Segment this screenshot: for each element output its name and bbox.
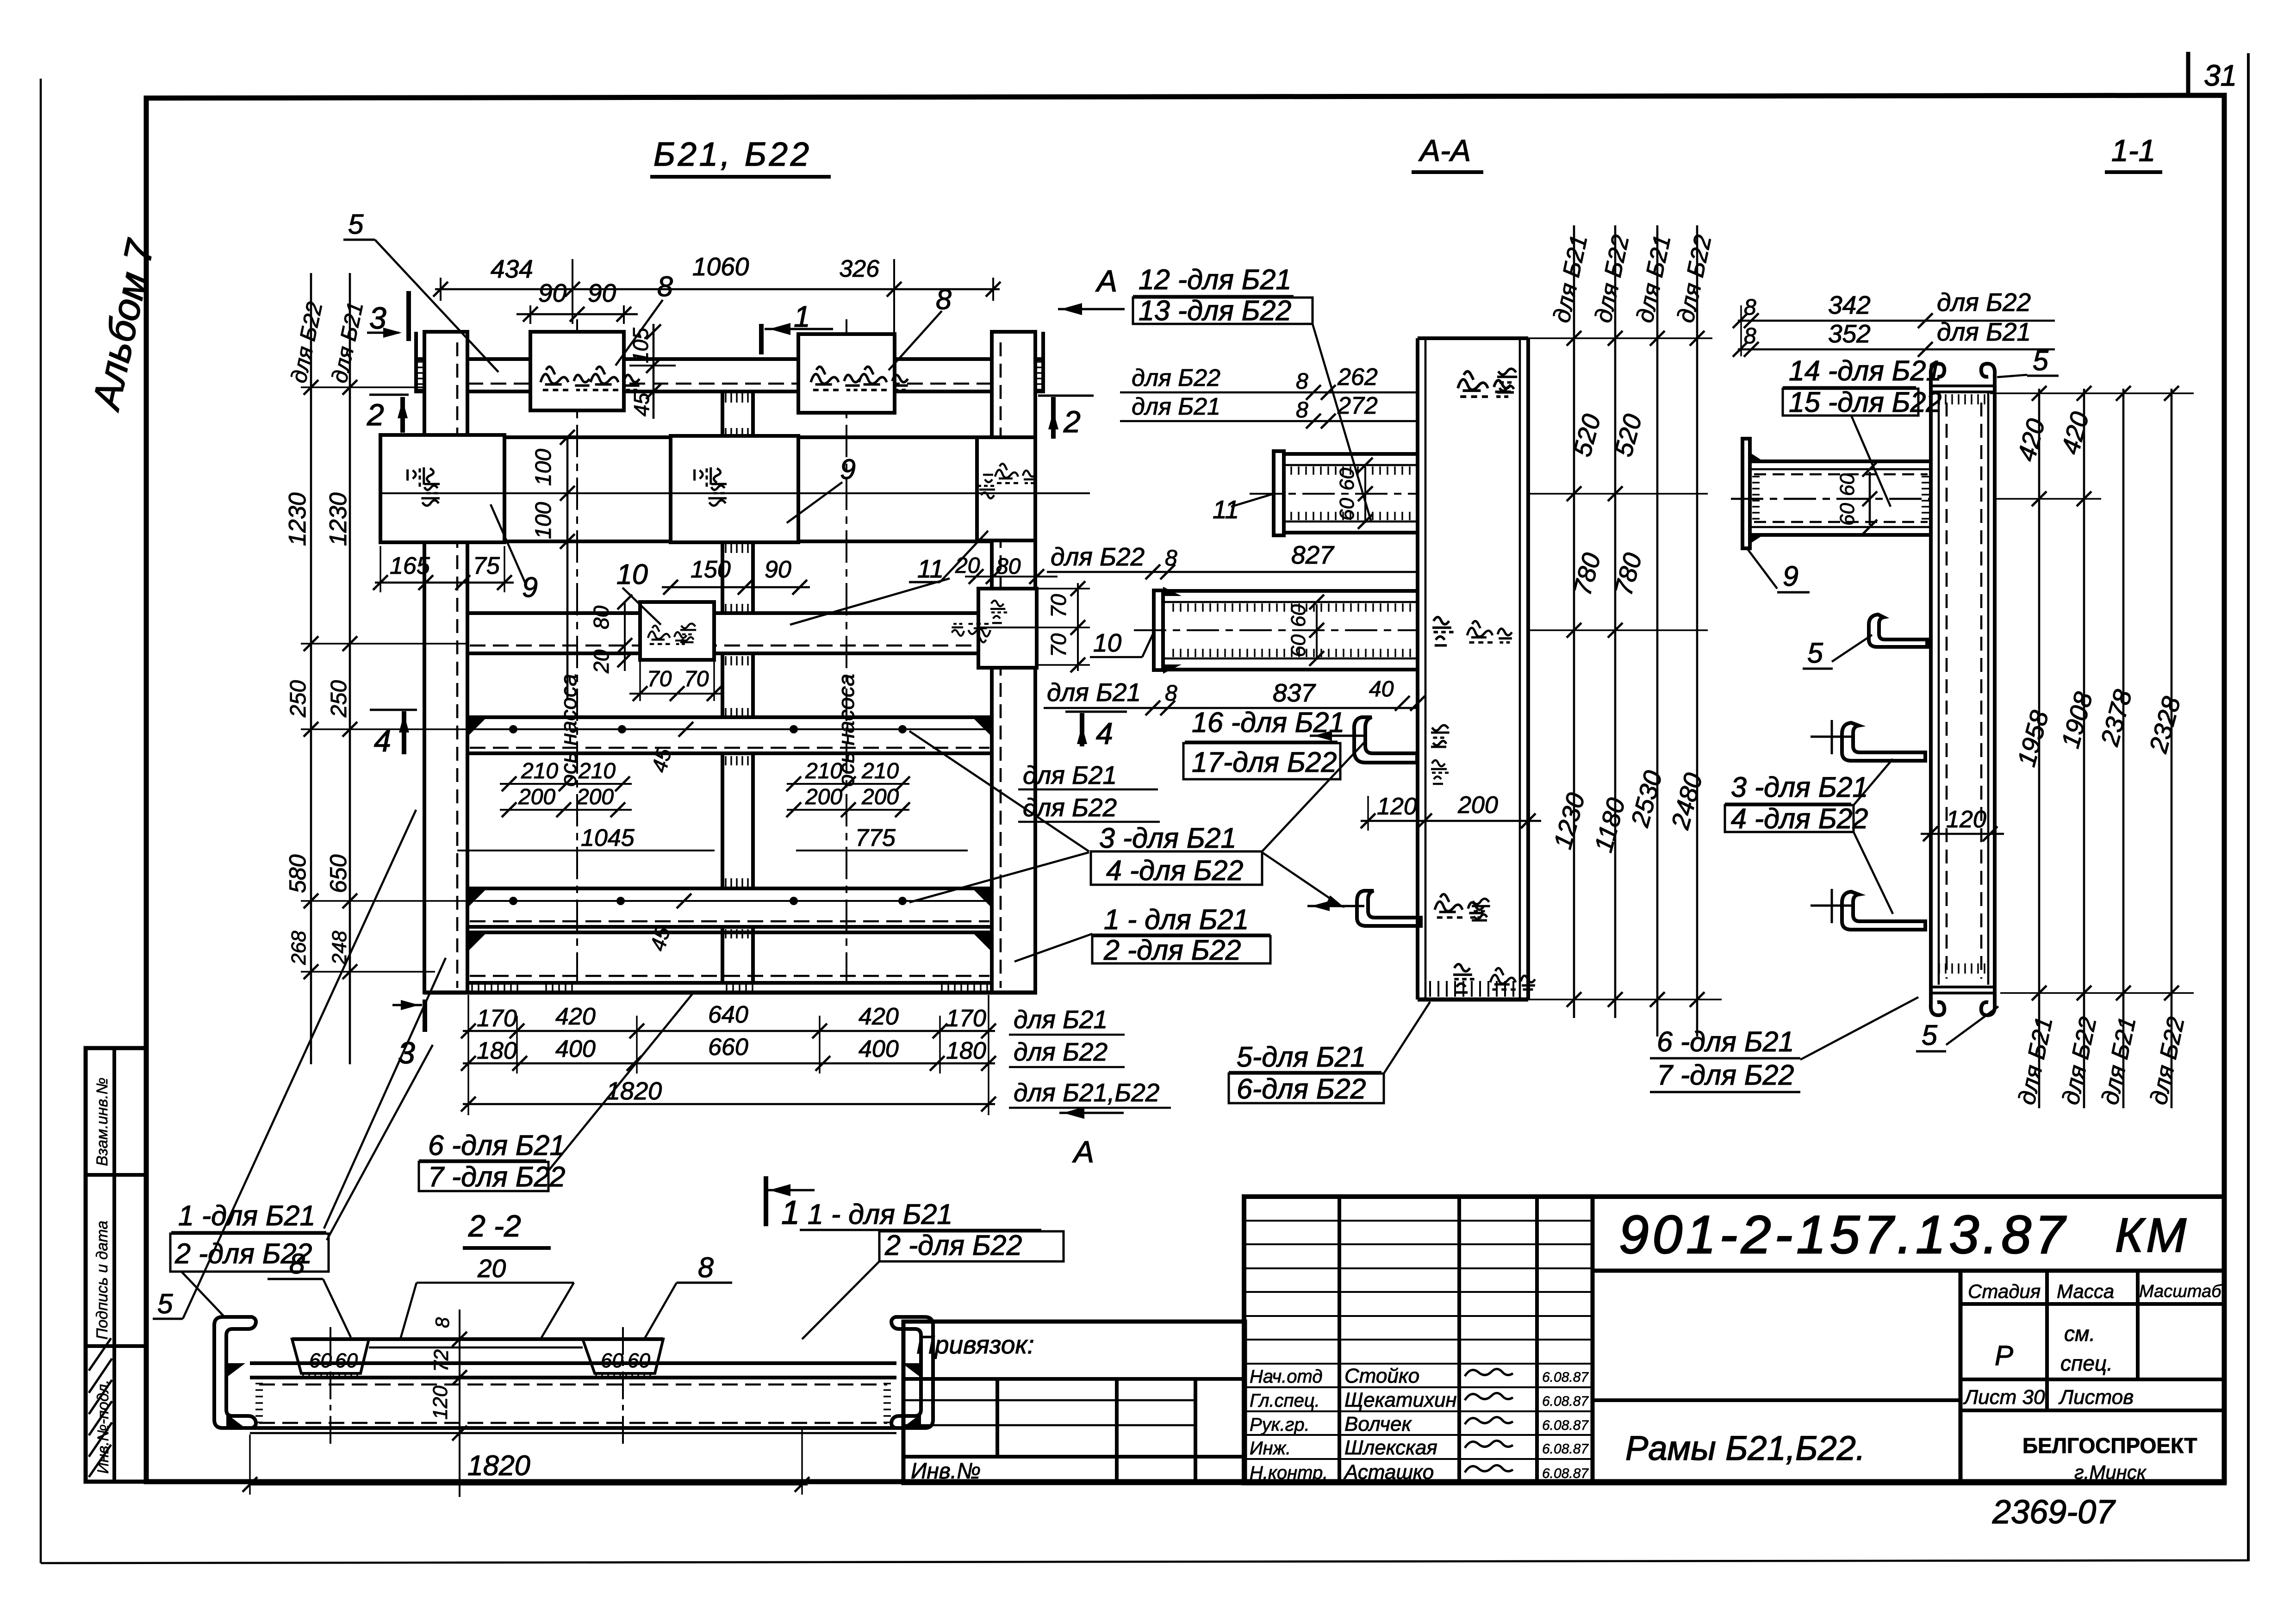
beam 2 centerline [387, 492, 1090, 494]
svg-text:6.08.87: 6.08.87 [1542, 1418, 1589, 1433]
bottom chord [467, 931, 992, 934]
svg-text:80: 80 [589, 605, 613, 629]
svg-text:5: 5 [1922, 1019, 1938, 1051]
dim 105/45 vertical [653, 324, 655, 419]
svg-text:60: 60 [628, 1349, 650, 1372]
dim row 90/90 [516, 313, 638, 316]
svg-text:70: 70 [1046, 633, 1070, 657]
plate 11 right [977, 437, 1035, 540]
svg-text:200: 200 [576, 785, 614, 809]
section mark 4 right [1065, 711, 1127, 713]
svg-text:Масштаб: Масштаб [2139, 1282, 2222, 1301]
svg-text:2369-07: 2369-07 [1992, 1494, 2116, 1531]
svg-text:3 -для Б21: 3 -для Б21 [1099, 822, 1236, 854]
central vertical member [721, 391, 724, 437]
svg-text:1 - для Б21: 1 - для Б21 [808, 1198, 952, 1230]
dim 70/70 right [1077, 583, 1079, 671]
svg-text:1230: 1230 [325, 492, 352, 546]
svg-text:8: 8 [431, 1317, 453, 1328]
beam 2 band [467, 435, 992, 439]
svg-text:Стойко: Стойко [1344, 1365, 1419, 1387]
svg-text:250: 250 [327, 680, 351, 718]
svg-text:6.08.87: 6.08.87 [1542, 1441, 1589, 1457]
svg-text:262: 262 [1337, 364, 1378, 391]
svg-text:Стадия: Стадия [1968, 1280, 2041, 1302]
svg-text:70: 70 [684, 667, 709, 691]
svg-text:Щекатихин: Щекатихин [1344, 1389, 1457, 1411]
svg-text:2: 2 [1063, 404, 1081, 439]
svg-text:60: 60 [1336, 498, 1358, 521]
svg-text:2 -2: 2 -2 [468, 1209, 521, 1243]
svg-text:8: 8 [657, 271, 673, 302]
svg-text:60: 60 [1836, 503, 1859, 526]
svg-text:Инж.: Инж. [1250, 1438, 1291, 1459]
svg-text:16 -для Б21: 16 -для Б21 [1192, 707, 1344, 738]
svg-text:342: 342 [1828, 291, 1871, 319]
svg-text:4: 4 [1096, 716, 1113, 751]
svg-text:210: 210 [521, 759, 558, 783]
svg-text:60: 60 [1336, 468, 1358, 490]
svg-text:для Б22: для Б22 [1132, 365, 1220, 391]
svg-text:650: 650 [325, 854, 351, 893]
stamp column frame [86, 1048, 146, 1482]
outer sheet edge bottom [41, 1560, 2248, 1563]
dim 80/20 left of plate10 [624, 602, 626, 671]
svg-text:180: 180 [946, 1037, 986, 1064]
plate 8 left [530, 332, 624, 410]
extension lines left [301, 386, 424, 388]
extension verticals bottom dims [467, 995, 469, 1115]
dim 70/70 under plate10 [629, 693, 722, 695]
AA column web left [1416, 338, 1419, 999]
pump axis centerline right [846, 319, 847, 985]
beam 1 top chord [416, 357, 424, 361]
svg-text:210: 210 [805, 759, 842, 783]
svg-text:3 -для Б21: 3 -для Б21 [1731, 771, 1868, 803]
svg-text:6 -для Б21: 6 -для Б21 [428, 1130, 565, 1161]
svg-text:А: А [1072, 1135, 1094, 1169]
svg-text:2 -для Б22: 2 -для Б22 [884, 1229, 1022, 1261]
svg-text:Асташко: Асташко [1343, 1461, 1434, 1484]
svg-text:8: 8 [1165, 681, 1177, 706]
svg-text:10: 10 [1093, 628, 1122, 657]
beam 4 [467, 715, 992, 719]
svg-text:3: 3 [398, 1036, 415, 1070]
plate 10 center [640, 602, 714, 660]
pump axis centerline left [576, 319, 578, 985]
svg-text:1 - для Б21: 1 - для Б21 [1104, 904, 1249, 935]
svg-text:для Б21: для Б21 [1132, 393, 1220, 420]
AA angle bracket [1354, 717, 1417, 763]
svg-text:6-для Б22: 6-для Б22 [1237, 1073, 1366, 1105]
stud line beam4 [477, 728, 988, 730]
leader to beam 5 [790, 578, 950, 625]
svg-text:КМ: КМ [2115, 1209, 2189, 1262]
AA weld marks top [1458, 372, 1511, 397]
svg-text:6.08.87: 6.08.87 [1542, 1394, 1589, 1409]
svg-text:7 -для Б22: 7 -для Б22 [428, 1161, 565, 1192]
section mark 1 bottom [764, 1176, 768, 1226]
svg-text:120: 120 [1377, 793, 1417, 820]
signature table rows [1244, 1220, 1593, 1222]
svg-text:4: 4 [374, 724, 391, 758]
svg-text:60: 60 [1287, 634, 1310, 657]
svg-text:Волчек: Волчек [1344, 1413, 1412, 1435]
svg-text:А-А: А-А [1418, 133, 1471, 168]
dim 100/100 vertical [566, 437, 569, 699]
plate 9 left [380, 435, 504, 542]
svg-text:60: 60 [601, 1349, 623, 1372]
AA column top [1418, 336, 1528, 340]
svg-text:120: 120 [429, 1385, 452, 1420]
svg-text:Рук.гр.: Рук.гр. [1250, 1415, 1310, 1435]
AA channel bracket item5 [1357, 891, 1421, 926]
svg-text:60: 60 [309, 1349, 332, 1372]
2-2 right channel [891, 1317, 933, 1428]
svg-text:для Б21,Б22: для Б21,Б22 [1014, 1078, 1159, 1107]
svg-text:8: 8 [289, 1248, 305, 1279]
svg-text:180: 180 [477, 1037, 517, 1064]
plan bottom edge [424, 991, 1037, 995]
AA weld marks low [1435, 894, 1484, 917]
left dim line for B22 [310, 273, 312, 1064]
beam 1 hidden line [467, 383, 992, 385]
svg-text:31: 31 [2204, 59, 2237, 92]
svg-text:10: 10 [616, 559, 648, 590]
svg-text:165: 165 [390, 552, 430, 579]
2-2 left spool [292, 1339, 369, 1373]
stud dots beam4 [509, 725, 517, 733]
svg-text:580: 580 [285, 854, 311, 893]
dim 1045 [457, 850, 715, 851]
svg-text:90: 90 [588, 279, 616, 307]
svg-text:827: 827 [1291, 540, 1335, 569]
svg-text:20: 20 [477, 1254, 506, 1283]
svg-text:326: 326 [839, 255, 879, 282]
svg-text:Гл.спец.: Гл.спец. [1250, 1391, 1320, 1411]
2-2 dim 1820 [250, 1484, 808, 1486]
svg-text:120: 120 [1946, 806, 1986, 833]
svg-text:40: 40 [1369, 677, 1394, 701]
svg-text:105: 105 [628, 328, 653, 363]
svg-text:20: 20 [589, 649, 613, 674]
bracket b3 [1842, 892, 1925, 930]
dim row 434/1060/326 [435, 288, 1000, 291]
svg-text:1: 1 [794, 300, 810, 333]
plate 10 right [978, 589, 1037, 668]
1-1 right dim lines [2038, 389, 2041, 1108]
svg-text:2: 2 [367, 397, 384, 432]
2-2 right spool [583, 1339, 663, 1373]
svg-text:660: 660 [708, 1034, 748, 1061]
dim 210 210 row left [500, 783, 632, 785]
bracket b2 [1842, 723, 1925, 761]
AA upper stub [1284, 452, 1418, 456]
svg-text:спец.: спец. [2060, 1351, 2113, 1375]
dim row 180/400/660/400/180 [463, 1062, 995, 1065]
svg-text:1230: 1230 [284, 492, 311, 546]
svg-text:901-2-157.13.87: 901-2-157.13.87 [1619, 1204, 2068, 1265]
svg-text:775: 775 [855, 825, 896, 851]
svg-text:5-для Б21: 5-для Б21 [1237, 1041, 1366, 1073]
plate 9 center [671, 436, 798, 542]
svg-text:для Б22: для Б22 [1937, 288, 2031, 317]
svg-text:272: 272 [1337, 392, 1378, 419]
section mark A bottom [1059, 1112, 1124, 1114]
svg-text:60: 60 [1836, 473, 1859, 496]
svg-text:200: 200 [861, 785, 899, 809]
svg-text:для Б21: для Б21 [1937, 317, 2031, 346]
svg-text:для Б22: для Б22 [1014, 1037, 1108, 1066]
title block horizontals [1593, 1269, 2224, 1273]
2-2 beam flange lines [250, 1361, 896, 1365]
dim row 170/420/640/420/170 [463, 1030, 995, 1032]
svg-text:11: 11 [917, 554, 944, 583]
stub 14/15 [1750, 459, 1931, 463]
svg-text:70: 70 [647, 667, 672, 691]
AA weld marks mid [1432, 617, 1454, 646]
svg-text:400: 400 [859, 1036, 899, 1062]
2-2 vertical dims 8/72/120 [459, 1310, 460, 1497]
AA column bottom [1418, 998, 1528, 1002]
outer sheet edge right [2247, 53, 2250, 1561]
svg-text:4 -для Б22: 4 -для Б22 [1106, 855, 1243, 886]
svg-text:420: 420 [859, 1003, 899, 1030]
svg-text:для Б21: для Б21 [1014, 1005, 1108, 1034]
central member weld hatch [725, 393, 726, 403]
svg-text:Н.контр.: Н.контр. [1250, 1463, 1328, 1483]
dim 200 200 row left [500, 809, 632, 811]
AA weld marks bottom [1453, 964, 1475, 993]
2-2 top plate [292, 1337, 663, 1341]
svg-text:150: 150 [691, 556, 731, 583]
svg-text:6 -для Б21: 6 -для Б21 [1657, 1026, 1794, 1057]
left dim line for B21 [349, 273, 351, 1064]
AA column web right [1519, 338, 1521, 999]
svg-text:400: 400 [555, 1036, 596, 1062]
beam 5 [467, 887, 992, 890]
svg-text:268: 268 [287, 931, 310, 965]
svg-text:Рамы Б21,Б22.: Рамы Б21,Б22. [1625, 1429, 1865, 1467]
svg-text:13 -для Б22: 13 -для Б22 [1139, 295, 1291, 326]
svg-text:А: А [1095, 264, 1117, 298]
svg-text:837: 837 [1273, 678, 1316, 707]
beam 3 [467, 611, 992, 615]
svg-text:352: 352 [1828, 319, 1871, 348]
svg-text:20: 20 [955, 553, 980, 578]
svg-text:210: 210 [861, 759, 899, 783]
AA right dim lines [1573, 225, 1575, 1018]
svg-text:8: 8 [936, 284, 952, 315]
svg-text:Привязок:: Привязок: [916, 1330, 1034, 1359]
svg-text:80: 80 [996, 554, 1021, 579]
svg-text:1820: 1820 [467, 1450, 530, 1481]
svg-text:5: 5 [2033, 345, 2049, 376]
member web lines [1929, 389, 1933, 988]
svg-text:75: 75 [473, 552, 500, 579]
section mark 4 left [370, 709, 417, 711]
svg-text:45: 45 [629, 392, 653, 416]
column left (plan) [424, 332, 467, 993]
svg-text:70: 70 [1046, 594, 1070, 618]
svg-text:17-для Б22: 17-для Б22 [1192, 746, 1337, 778]
bracket b1 [1869, 615, 1927, 647]
plate 8 right [798, 334, 895, 413]
svg-text:1 -для Б21: 1 -для Б21 [178, 1200, 315, 1231]
title block frame [1244, 1197, 2224, 1483]
svg-text:Нач.отд: Нач.отд [1250, 1366, 1323, 1387]
svg-text:14 -для Б21: 14 -для Б21 [1789, 355, 1941, 386]
svg-text:60: 60 [1287, 604, 1310, 627]
svg-text:Лист 30: Лист 30 [1963, 1386, 2045, 1409]
svg-text:640: 640 [708, 1001, 748, 1028]
svg-text:5: 5 [1807, 637, 1823, 669]
svg-text:9: 9 [522, 571, 538, 603]
svg-text:1820: 1820 [606, 1077, 662, 1105]
svg-text:7 -для Б22: 7 -для Б22 [1657, 1059, 1794, 1091]
svg-text:8: 8 [698, 1252, 714, 1283]
AA lower stub [1165, 589, 1418, 593]
svg-text:72: 72 [430, 1349, 453, 1372]
sheet number box [2186, 52, 2190, 96]
svg-text:170: 170 [946, 1005, 986, 1032]
outer sheet edge left [40, 79, 42, 1563]
svg-text:200: 200 [518, 785, 555, 809]
stud line beam5 [477, 900, 988, 902]
svg-text:Масса: Масса [2057, 1280, 2114, 1302]
svg-text:9: 9 [840, 453, 856, 485]
svg-text:Листов: Листов [2058, 1386, 2134, 1409]
svg-text:100: 100 [531, 502, 556, 539]
stamp hatch scribbles [89, 1338, 112, 1477]
AA upper stub dim 60/60 [1364, 467, 1366, 523]
stud dots beam5 [509, 897, 517, 905]
svg-text:250: 250 [286, 680, 311, 718]
svg-text:г.Минск: г.Минск [2074, 1461, 2147, 1483]
svg-text:2 -для Б22: 2 -для Б22 [1103, 934, 1241, 966]
AA dim 120/200 [1361, 820, 1541, 822]
svg-text:100: 100 [531, 449, 556, 486]
svg-text:5: 5 [348, 209, 364, 240]
title block verticals [1338, 1197, 1341, 1483]
svg-text:200: 200 [1457, 792, 1498, 819]
svg-text:5: 5 [157, 1288, 173, 1319]
svg-text:ось насоса: ось насоса [557, 674, 581, 787]
privyazok table frame [903, 1322, 1245, 1483]
svg-text:420: 420 [555, 1003, 596, 1030]
svg-text:Шлекская: Шлекская [1344, 1436, 1437, 1459]
svg-text:Инв.№: Инв.№ [911, 1459, 981, 1484]
main border frame [146, 95, 2224, 1482]
svg-text:1: 1 [781, 1194, 800, 1231]
svg-text:1-1: 1-1 [2111, 133, 2155, 168]
signatures [1465, 1369, 1513, 1376]
svg-text:90: 90 [765, 556, 791, 583]
dim 20/80 right top [965, 576, 1058, 577]
svg-text:см.: см. [2064, 1322, 2095, 1346]
member bottom channel end [1931, 987, 1995, 1015]
svg-text:Взам.инв.№: Взам.инв.№ [93, 1078, 111, 1166]
svg-text:Р: Р [1995, 1340, 2013, 1371]
AA extension lines right [1528, 337, 1712, 339]
svg-text:Подпись и дата: Подпись и дата [93, 1221, 111, 1340]
column right (plan) [992, 332, 1035, 993]
svg-text:для Б22: для Б22 [1051, 542, 1145, 571]
svg-text:170: 170 [477, 1005, 517, 1032]
svg-text:для Б21: для Б21 [1023, 761, 1117, 789]
svg-text:1060: 1060 [692, 252, 749, 281]
svg-text:БЕЛГОСПРОЕКТ: БЕЛГОСПРОЕКТ [2022, 1434, 2197, 1458]
svg-text:200: 200 [805, 785, 842, 809]
svg-text:60: 60 [335, 1349, 358, 1372]
section mark 1 top [759, 324, 764, 354]
dim row 1820 [463, 1103, 995, 1105]
svg-text:9: 9 [1783, 560, 1798, 592]
svg-text:11: 11 [1213, 495, 1239, 524]
dim row 165/75 [375, 582, 514, 584]
dim row 150/90 [662, 586, 810, 589]
svg-text:для Б21: для Б21 [1047, 678, 1141, 707]
svg-text:210: 210 [578, 759, 616, 783]
svg-text:6.08.87: 6.08.87 [1542, 1370, 1589, 1385]
AA lower stub dim 60/60 [1316, 604, 1318, 660]
2-2 left channel [214, 1317, 256, 1428]
svg-text:8: 8 [1296, 398, 1308, 422]
svg-text:434: 434 [491, 255, 533, 283]
svg-text:Б21, Б22: Б21, Б22 [653, 136, 812, 173]
svg-text:1045: 1045 [581, 825, 635, 851]
svg-text:6.08.87: 6.08.87 [1542, 1466, 1589, 1481]
svg-text:90: 90 [538, 279, 567, 307]
member top channel end [1931, 364, 1995, 392]
stub dim 60/60 [1869, 472, 1871, 525]
svg-text:8: 8 [1296, 369, 1308, 394]
svg-text:4 -для Б22: 4 -для Б22 [1731, 803, 1868, 834]
svg-text:12 -для Б21: 12 -для Б21 [1139, 264, 1291, 295]
